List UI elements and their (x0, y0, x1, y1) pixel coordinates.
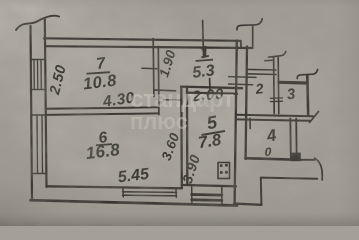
entrance door arc (315, 158, 323, 180)
wall room2/3 divider (273, 57, 276, 114)
tick hall passage (164, 99, 181, 101)
vent shaft A caps (31, 59, 46, 61)
divider break ticks (271, 97, 283, 99)
wall: top exterior top line (44, 38, 240, 41)
divider top curl (269, 52, 286, 58)
wall 2/3 bottom bottom line (237, 119, 310, 120)
kitchen bottom inner line (184, 185, 237, 186)
top wall end step (240, 41, 242, 48)
wall: top exterior bottom line (45, 46, 253, 48)
wall 1.90 left line (152, 39, 155, 97)
room3 right wall (306, 75, 310, 116)
kitchen right wall outer line (235, 41, 237, 204)
watermark (130, 86, 235, 134)
vent shaft B bottom cap (32, 173, 47, 175)
entrance left vertical (260, 178, 263, 205)
entrance bottom line (234, 204, 262, 205)
break tick x203 (203, 21, 204, 58)
wall: left stairwell inner line (45, 20, 47, 188)
wall 1.90 right line (157, 47, 160, 98)
wall 2/3 bottom top line (237, 115, 313, 116)
black square pier (291, 153, 301, 162)
vent shaft B hatch (36, 115, 39, 174)
wall between room7 and room6 bottom line (46, 113, 159, 115)
room3 top wall (279, 81, 306, 85)
window room6 glazing (123, 191, 177, 194)
kitchen top wall top line (181, 87, 242, 89)
wall: bottom exterior outer line (31, 200, 238, 205)
wall: room6 bottom inner line (47, 186, 183, 188)
kitchen top wall bottom line (187, 93, 237, 94)
wall between room7 and room6 top line (46, 107, 159, 109)
room3 T cap (297, 70, 317, 79)
room4 door tick (249, 119, 251, 129)
entrance top line (301, 159, 315, 161)
tick 1.90 bottom (155, 89, 176, 92)
entrance mid line (262, 178, 318, 179)
wall cap at y115 (31, 114, 46, 116)
wall: left stairwell outer line (31, 26, 33, 201)
dimension tick 2.00 (209, 79, 211, 92)
tick above room2 (265, 59, 272, 62)
wall room6/kitchen right line (186, 87, 189, 185)
kitchen right wall inner line (246, 47, 247, 160)
break ticks on kitchen right wall (229, 76, 256, 79)
vent shaft A hatch (33, 60, 35, 90)
window room6 right cap (175, 189, 177, 197)
tick 1.90 top (142, 67, 157, 70)
wall room6/kitchen left line (180, 87, 183, 188)
top-right T bar (237, 19, 262, 30)
stove box (218, 163, 230, 179)
room4 right wall (289, 119, 292, 158)
break curve top-left (16, 16, 59, 30)
room2 top wall (247, 68, 276, 71)
room4 bottom wall (245, 158, 291, 159)
top-right step vertical (252, 25, 254, 47)
wall 7/6 end cap (158, 100, 160, 115)
stove burners (220, 164, 228, 174)
slash end (310, 112, 319, 123)
balcony window caps (191, 187, 193, 204)
balcony window bars (192, 193, 222, 196)
window room6 left cap (122, 189, 124, 198)
